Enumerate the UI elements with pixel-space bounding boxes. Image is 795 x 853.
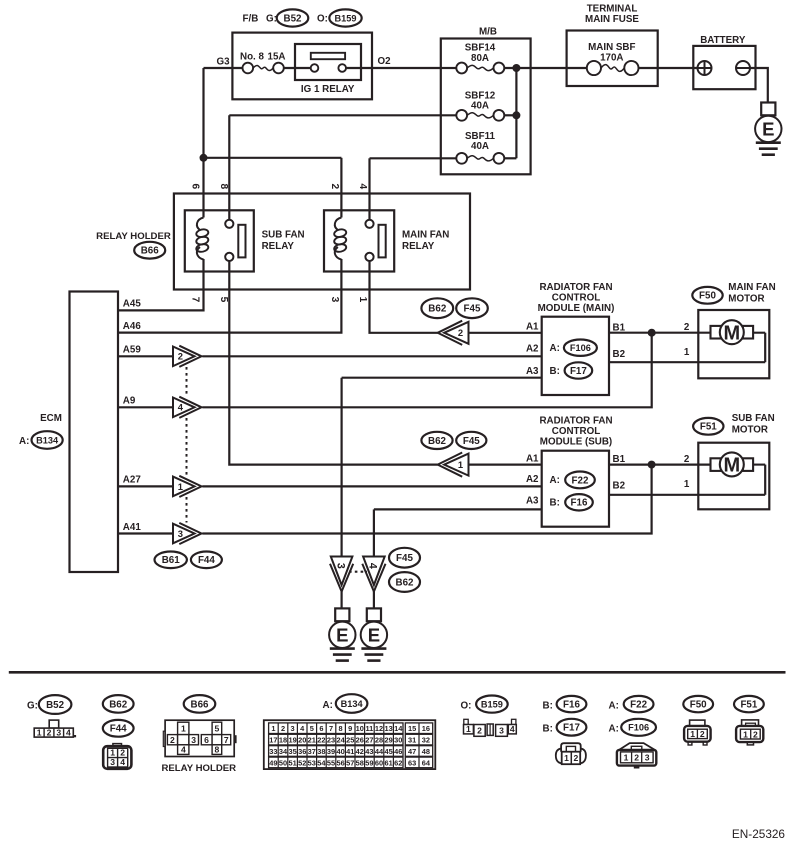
svg-text:F16: F16 — [571, 498, 588, 509]
svg-text:F17: F17 — [570, 366, 587, 377]
svg-text:CONTROL: CONTROL — [552, 426, 600, 437]
svg-text:3: 3 — [329, 297, 340, 303]
junction SBF14/bus — [512, 64, 520, 72]
connector F106 pinout — [617, 743, 656, 768]
wire fuse to relay contact — [284, 67, 311, 69]
motor SUB box — [698, 443, 769, 510]
svg-text:3: 3 — [56, 728, 61, 738]
svg-text:A:: A: — [550, 343, 560, 354]
wire main relay contact pin 4 vertical — [368, 158, 370, 219]
relay IG1 coil bar — [311, 53, 345, 59]
svg-text:MODULE (SUB): MODULE (SUB) — [540, 437, 612, 448]
wire SBF12 to bus — [504, 114, 516, 116]
svg-text:O:: O: — [317, 14, 328, 25]
svg-text:B:: B: — [550, 366, 560, 377]
svg-text:G3: G3 — [217, 57, 231, 68]
svg-text:G:: G: — [266, 14, 277, 25]
svg-text:SUB FAN: SUB FAN — [732, 413, 775, 424]
svg-text:9: 9 — [348, 724, 352, 733]
connector oval F51 (pinout) — [734, 696, 764, 712]
svg-text:2: 2 — [47, 728, 52, 738]
wire pin3 to ECM A46 — [118, 259, 341, 333]
svg-text:A45: A45 — [123, 299, 142, 310]
svg-text:48: 48 — [422, 747, 430, 756]
connector oval B61 — [155, 552, 187, 569]
motor MAIN box — [698, 310, 769, 378]
wire arrow 4 to ground E — [373, 589, 375, 608]
svg-text:2: 2 — [329, 183, 340, 189]
relay IG1 contact circles — [311, 64, 346, 72]
connector oval F106 (pinout) — [621, 719, 656, 736]
connector oval B52 (pinout) — [39, 695, 72, 714]
ECM outline — [70, 292, 119, 573]
wire ground leg 4 vertical — [373, 509, 375, 556]
fuse box F/B outline — [232, 33, 372, 100]
svg-text:B1: B1 — [613, 454, 626, 465]
fuse MAIN SBF 170A — [587, 61, 639, 75]
svg-text:M: M — [723, 455, 740, 477]
svg-text:61: 61 — [384, 758, 392, 767]
connector oval F44 (diagram) — [191, 552, 222, 569]
svg-text:1: 1 — [684, 479, 690, 490]
connector oval B62 (main) — [421, 298, 453, 318]
svg-text:4: 4 — [367, 563, 379, 569]
svg-text:15A: 15A — [268, 52, 286, 63]
svg-text:30: 30 — [394, 736, 402, 745]
connector oval B62 (sub) — [421, 432, 452, 449]
wire G3 to F/B box — [204, 67, 244, 69]
svg-text:MOTOR: MOTOR — [728, 294, 764, 305]
svg-text:2: 2 — [178, 351, 183, 362]
svg-text:3: 3 — [178, 528, 183, 539]
battery negative terminal — [736, 61, 750, 75]
wire M/B to terminal main fuse — [531, 67, 587, 69]
connector oval F17 (module MAIN) — [565, 362, 593, 378]
connector oval F50 (motor MAIN) — [692, 287, 722, 304]
svg-text:E: E — [336, 624, 348, 645]
svg-text:A27: A27 — [123, 475, 142, 486]
svg-text:32: 32 — [422, 736, 430, 745]
wire main relay coil pin 2 vertical — [340, 158, 342, 218]
connector B159 pinout — [464, 719, 517, 736]
svg-text:F45: F45 — [396, 553, 413, 564]
svg-text:5: 5 — [215, 724, 220, 734]
svg-text:A1: A1 — [526, 454, 539, 465]
wire junction to main relay coil — [204, 157, 342, 159]
svg-text:1: 1 — [178, 481, 183, 492]
junction G3/main-coil branch — [200, 154, 208, 162]
svg-text:O2: O2 — [378, 56, 392, 67]
ground E (battery) — [755, 103, 781, 155]
svg-text:2: 2 — [684, 454, 690, 465]
svg-text:SBF14: SBF14 — [465, 43, 496, 54]
svg-text:2: 2 — [700, 729, 705, 739]
svg-text:33: 33 — [269, 747, 277, 756]
junction SBF12/bus — [512, 111, 520, 119]
svg-text:F51: F51 — [740, 700, 757, 711]
svg-text:2: 2 — [170, 735, 175, 745]
svg-text:F45: F45 — [464, 304, 481, 315]
svg-text:7: 7 — [190, 297, 201, 303]
svg-text:3: 3 — [499, 726, 504, 736]
svg-text:F17: F17 — [563, 723, 580, 734]
svg-text:1: 1 — [466, 724, 471, 734]
svg-text:A9: A9 — [123, 396, 136, 407]
motor M symbol (MAIN) — [711, 320, 766, 344]
wire motor SUB right drop — [764, 465, 766, 495]
svg-text:39: 39 — [327, 747, 335, 756]
connector arrow 3 down (ground) — [330, 557, 353, 592]
svg-text:No. 8: No. 8 — [240, 52, 265, 63]
relay SUB FAN RELAY box — [185, 210, 254, 271]
svg-text:45: 45 — [384, 747, 392, 756]
connector oval F50 (pinout) — [683, 696, 713, 712]
wire A27 to triangle 1 — [118, 485, 173, 487]
wire relay to M/B (O2) — [346, 67, 441, 69]
svg-text:16: 16 — [422, 724, 430, 733]
relay MAIN FAN RELAY internals — [333, 218, 385, 262]
svg-text:3: 3 — [191, 735, 196, 745]
svg-text:B52: B52 — [284, 13, 303, 24]
wire triangle 4 to B1 MAIN junction — [202, 333, 651, 408]
svg-text:B52: B52 — [46, 700, 65, 711]
svg-text:4: 4 — [510, 724, 515, 734]
wire pin7 to ECM A45 — [118, 259, 204, 310]
svg-text:B61: B61 — [162, 555, 181, 566]
svg-text:23: 23 — [327, 736, 335, 745]
svg-text:MODULE (MAIN): MODULE (MAIN) — [538, 303, 615, 314]
svg-text:2: 2 — [634, 753, 639, 763]
svg-text:F44: F44 — [198, 555, 215, 566]
svg-text:RELAY HOLDER: RELAY HOLDER — [96, 231, 171, 242]
svg-text:G:: G: — [27, 700, 38, 711]
svg-text:41: 41 — [346, 747, 354, 756]
svg-text:F50: F50 — [690, 700, 707, 711]
svg-text:80A: 80A — [471, 53, 489, 64]
svg-text:M: M — [723, 322, 740, 344]
svg-text:MAIN FAN: MAIN FAN — [402, 230, 449, 241]
svg-text:RELAY: RELAY — [262, 241, 295, 252]
svg-text:31: 31 — [408, 736, 416, 745]
svg-text:A2: A2 — [526, 474, 539, 485]
svg-text:A:: A: — [19, 436, 29, 447]
svg-text:1: 1 — [357, 297, 368, 303]
connector oval B159 (pinout) — [476, 696, 508, 713]
svg-text:2: 2 — [574, 753, 579, 763]
junction B1 MAIN — [648, 329, 656, 337]
svg-text:M/B: M/B — [479, 27, 497, 38]
connector oval F45 (ground) — [389, 548, 420, 568]
svg-text:1: 1 — [181, 724, 186, 734]
module MAIN box — [542, 317, 609, 395]
svg-text:F/B: F/B — [243, 14, 259, 25]
svg-text:55: 55 — [327, 758, 335, 767]
connector oval F22 (module SUB) — [565, 472, 595, 489]
wire B1 MAIN to motor — [609, 332, 710, 334]
svg-text:42: 42 — [356, 747, 364, 756]
svg-text:27: 27 — [365, 736, 373, 745]
svg-text:F50: F50 — [699, 291, 716, 302]
connector arrow 1 left (A1 SUB) — [438, 453, 469, 477]
wire B2 SUB return — [609, 494, 765, 496]
svg-text:B:: B: — [543, 700, 553, 711]
svg-text:57: 57 — [346, 758, 354, 767]
svg-text:SUB FAN: SUB FAN — [262, 230, 305, 241]
wire SBF14 to M/B right edge — [504, 67, 530, 69]
connector oval B62 (ground) — [389, 572, 420, 592]
connector oval F106 (module MAIN) — [564, 340, 597, 356]
connector oval F22 (pinout) — [624, 696, 654, 712]
svg-text:RELAY HOLDER: RELAY HOLDER — [161, 763, 236, 774]
connector F44 pinout — [103, 744, 131, 769]
svg-text:4: 4 — [357, 183, 368, 189]
svg-text:RADIATOR FAN: RADIATOR FAN — [539, 282, 612, 293]
svg-text:43: 43 — [365, 747, 373, 756]
wire SBF11 to bus — [504, 157, 516, 159]
svg-text:F106: F106 — [628, 723, 649, 733]
connector oval B52 (top) — [277, 9, 309, 26]
connector oval F16 (module SUB) — [565, 494, 593, 510]
svg-text:1: 1 — [564, 753, 569, 763]
svg-text:29: 29 — [384, 736, 392, 745]
svg-text:1: 1 — [37, 728, 42, 738]
svg-text:40: 40 — [336, 747, 344, 756]
svg-text:A:: A: — [609, 700, 619, 711]
svg-text:SBF12: SBF12 — [465, 90, 496, 101]
svg-text:B134: B134 — [36, 435, 59, 445]
svg-text:22: 22 — [317, 736, 325, 745]
svg-text:40A: 40A — [471, 101, 489, 112]
wire M/B edge to SBF14 — [441, 67, 457, 69]
svg-text:6: 6 — [319, 724, 323, 733]
svg-text:IG 1 RELAY: IG 1 RELAY — [301, 84, 355, 95]
wire SBF12 to sub relay contact — [229, 114, 456, 116]
svg-text:A59: A59 — [123, 345, 142, 356]
wire module SUB A3 to ground leg — [374, 508, 542, 510]
svg-text:38: 38 — [317, 747, 325, 756]
relay IG1 inner box — [295, 44, 361, 80]
svg-text:F51: F51 — [700, 422, 717, 433]
fuse SBF12 40A — [456, 110, 504, 121]
wire A41 to triangle 3 — [118, 532, 173, 534]
svg-text:37: 37 — [308, 747, 316, 756]
wire pin1 to triangle 2 left — [370, 261, 438, 333]
wire SBF11 to main relay contact — [370, 157, 457, 159]
svg-text:52: 52 — [298, 758, 306, 767]
wire A9 to triangle 4 — [118, 406, 173, 408]
wire triangle 2 to module MAIN A2 — [202, 355, 541, 357]
connector F17 pinout — [556, 743, 586, 764]
svg-text:47: 47 — [408, 747, 416, 756]
svg-text:17: 17 — [269, 736, 277, 745]
svg-text:7: 7 — [224, 735, 229, 745]
svg-text:B62: B62 — [396, 577, 415, 588]
svg-text:A3: A3 — [526, 496, 539, 507]
svg-text:4: 4 — [178, 402, 184, 413]
svg-text:13: 13 — [384, 724, 392, 733]
wire motor MAIN right drop — [764, 333, 766, 363]
connector oval B66 (diagram) — [134, 242, 165, 259]
svg-text:170A: 170A — [600, 53, 623, 64]
connector arrow 4 (A9) — [173, 397, 202, 418]
svg-text:TERMINAL: TERMINAL — [587, 4, 638, 15]
svg-text:B62: B62 — [428, 304, 447, 315]
motor M symbol (SUB) — [711, 452, 766, 476]
svg-text:B:: B: — [550, 498, 560, 509]
connector B66 relay holder pinout — [163, 720, 236, 756]
module SUB box — [542, 451, 609, 527]
svg-text:2: 2 — [281, 724, 285, 733]
svg-text:B159: B159 — [481, 700, 503, 710]
svg-text:B66: B66 — [191, 699, 210, 710]
svg-text:3: 3 — [110, 757, 115, 767]
ground E (left) — [329, 608, 355, 660]
connector oval B62 (pinout) — [103, 695, 134, 713]
connector oval F17 (pinout) — [557, 719, 587, 736]
fuse SBF11 40A — [456, 153, 504, 164]
dotted link between down arrows — [349, 571, 367, 573]
connector arrow 3 (A41) — [173, 523, 202, 544]
svg-text:A46: A46 — [123, 321, 142, 332]
svg-text:60: 60 — [375, 758, 383, 767]
svg-text:3: 3 — [645, 753, 650, 763]
battery outline — [693, 46, 755, 89]
svg-text:64: 64 — [422, 758, 431, 767]
svg-text:4: 4 — [181, 745, 186, 755]
connector F51 pinout — [736, 720, 763, 745]
connector oval B159 (top) — [329, 9, 361, 26]
svg-text:34: 34 — [279, 747, 288, 756]
svg-text:A3: A3 — [526, 366, 539, 377]
wire B2 MAIN return — [609, 361, 765, 363]
svg-text:5: 5 — [218, 297, 229, 303]
svg-text:BATTERY: BATTERY — [700, 35, 746, 46]
connector oval F44 (pinout) — [103, 720, 134, 737]
svg-text:19: 19 — [288, 736, 296, 745]
svg-text:F22: F22 — [572, 475, 589, 486]
svg-text:MAIN SBF: MAIN SBF — [588, 42, 635, 53]
svg-text:14: 14 — [394, 724, 403, 733]
connector arrow 1 (A27) — [173, 476, 202, 497]
svg-text:8: 8 — [215, 745, 220, 755]
svg-text:59: 59 — [365, 758, 373, 767]
svg-text:5: 5 — [310, 724, 314, 733]
svg-text:O:: O: — [461, 700, 472, 711]
connector oval B134 (pinout) — [336, 694, 368, 713]
connector arrow 2 (A59) — [173, 346, 202, 367]
svg-text:21: 21 — [308, 736, 316, 745]
svg-text:4: 4 — [120, 757, 125, 767]
svg-text:46: 46 — [394, 747, 402, 756]
svg-text:63: 63 — [408, 758, 416, 767]
svg-text:MAIN FAN: MAIN FAN — [728, 282, 775, 293]
svg-text:24: 24 — [336, 736, 345, 745]
junction B1 SUB — [648, 461, 656, 469]
wire ground leg 3 vertical — [341, 378, 343, 557]
svg-text:18: 18 — [279, 736, 287, 745]
wire G3 vertical to sub relay coil — [202, 68, 204, 218]
svg-text:F16: F16 — [563, 700, 580, 711]
svg-text:25: 25 — [346, 736, 354, 745]
svg-text:1: 1 — [690, 729, 695, 739]
relay holder outline — [174, 194, 470, 290]
svg-text:15: 15 — [408, 724, 416, 733]
svg-text:A:: A: — [550, 475, 560, 486]
svg-text:A41: A41 — [123, 522, 142, 533]
svg-text:B2: B2 — [613, 481, 626, 492]
svg-text:53: 53 — [308, 758, 316, 767]
svg-text:6: 6 — [204, 735, 209, 745]
svg-text:12: 12 — [375, 724, 383, 733]
wire arrow 3 to ground E — [341, 589, 343, 608]
svg-text:20: 20 — [298, 736, 306, 745]
svg-text:A1: A1 — [526, 322, 539, 333]
fuse SBF14 80A — [456, 63, 504, 74]
wire triangle 3 to B1 SUB junction — [202, 465, 651, 534]
svg-text:1: 1 — [271, 724, 275, 733]
svg-text:B62: B62 — [109, 699, 128, 710]
svg-text:36: 36 — [298, 747, 306, 756]
relay MAIN FAN RELAY box — [324, 210, 394, 271]
svg-text:58: 58 — [356, 758, 364, 767]
svg-text:F45: F45 — [463, 436, 480, 447]
svg-text:6: 6 — [190, 183, 201, 189]
svg-text:2: 2 — [477, 726, 482, 736]
svg-text:49: 49 — [269, 758, 277, 767]
svg-text:1: 1 — [684, 347, 690, 358]
wire triangle to module SUB A1 — [469, 464, 542, 466]
svg-text:RELAY: RELAY — [402, 241, 435, 252]
dotted link between arrows — [186, 367, 188, 523]
svg-text:62: 62 — [394, 758, 402, 767]
svg-text:3: 3 — [291, 724, 295, 733]
svg-text:B:: B: — [543, 723, 553, 734]
wire triangle 1 to module SUB A2 — [202, 485, 541, 487]
svg-text:28: 28 — [375, 736, 383, 745]
wire module MAIN A3 to ground leg — [342, 377, 542, 379]
connector arrow 4 down (ground) — [362, 557, 385, 592]
svg-text:2: 2 — [684, 322, 690, 333]
svg-text:4: 4 — [66, 728, 71, 738]
separator line — [9, 671, 786, 674]
svg-text:1: 1 — [624, 753, 629, 763]
wire sub relay contact pin 8 vertical — [228, 115, 230, 219]
connector arrow 2 left (A1 MAIN) — [438, 321, 469, 345]
connector oval F45 (main) — [456, 298, 488, 318]
svg-text:35: 35 — [288, 747, 296, 756]
connector oval F45 (sub) — [456, 432, 486, 449]
svg-text:RADIATOR FAN: RADIATOR FAN — [539, 416, 612, 427]
svg-text:MAIN FUSE: MAIN FUSE — [585, 14, 639, 25]
svg-text:44: 44 — [375, 747, 384, 756]
svg-text:2: 2 — [753, 729, 758, 739]
svg-text:EN-25326: EN-25326 — [732, 827, 786, 841]
svg-text:8: 8 — [339, 724, 343, 733]
svg-text:A:: A: — [609, 723, 619, 734]
connector B134 pinout grid — [264, 720, 436, 769]
wire battery to ground — [750, 68, 768, 103]
svg-text:40A: 40A — [471, 141, 489, 152]
fuse box M/B outline — [441, 39, 531, 175]
svg-text:50: 50 — [279, 758, 287, 767]
fuse No.8 15A — [243, 63, 284, 74]
wire triangle to module MAIN A1 — [469, 332, 542, 334]
wire A59 to triangle 2 — [118, 355, 173, 357]
svg-text:A:: A: — [323, 700, 333, 711]
svg-text:3: 3 — [334, 563, 346, 569]
svg-text:2: 2 — [458, 327, 463, 338]
svg-text:A2: A2 — [526, 344, 539, 355]
